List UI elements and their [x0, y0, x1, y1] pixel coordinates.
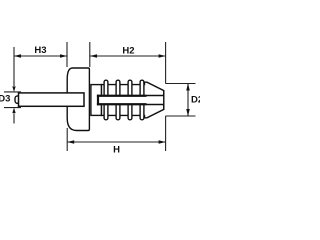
H3 left arrowhead — [14, 54, 21, 58]
extension line pin tip / D3 upper arrow shaft — [13, 47, 15, 86]
extension line flange left face — [66, 42, 68, 67]
svg-text:D3: D3 — [0, 93, 10, 104]
shaft core with nose cone — [102, 82, 164, 118]
bore outline left cap — [97, 95, 99, 106]
pin tip — [15, 96, 21, 103]
bore outline top (body) — [97, 95, 147, 97]
H left arrowhead — [67, 140, 74, 144]
H right arrowhead — [159, 140, 166, 144]
D3 up arrowhead — [12, 108, 15, 114]
dimension H3 line — [14, 55, 67, 57]
slot / bore with pin inside (white band over ribs) — [98, 95, 163, 105]
rib 2 — [116, 80, 120, 120]
D2 extension line upper — [166, 83, 196, 85]
flange (rivet head) — [67, 68, 89, 131]
rib 3 — [128, 80, 132, 120]
H2 left arrowhead — [90, 54, 97, 58]
bore outline bottom (nose) — [147, 103, 164, 105]
svg-text:H2: H2 — [122, 46, 134, 57]
dimension H line — [67, 141, 165, 143]
extension line flange right face — [89, 42, 91, 67]
rib 1 — [104, 80, 108, 120]
dimension H2 line — [90, 55, 166, 57]
svg-text:H3: H3 — [34, 45, 46, 56]
D2 extension line lower — [166, 115, 196, 117]
svg-text:D2: D2 — [191, 95, 200, 106]
dimension D2 line — [187, 84, 189, 117]
bore outline bottom (body) — [97, 103, 147, 105]
extension line rivet end upper — [165, 42, 167, 84]
rib 4 — [140, 80, 144, 120]
bore outline top (nose) — [147, 95, 164, 97]
collar — [91, 85, 102, 116]
extension line flange left lower (for H) — [66, 128, 68, 151]
D3 lower tick — [4, 107, 21, 109]
extension line rivet end lower — [165, 116, 167, 151]
nose tip end line — [163, 90, 165, 109]
H2 right arrowhead — [159, 54, 166, 58]
svg-text:H: H — [113, 144, 120, 155]
D2 bottom arrowhead — [186, 109, 190, 116]
D2 top arrowhead — [186, 84, 190, 91]
D3 up arrow shaft — [13, 114, 15, 124]
pin shaft — [19, 93, 85, 106]
H3 right arrowhead — [60, 54, 67, 58]
D3 upper tick — [4, 91, 21, 93]
D3 down arrowhead — [12, 86, 15, 92]
